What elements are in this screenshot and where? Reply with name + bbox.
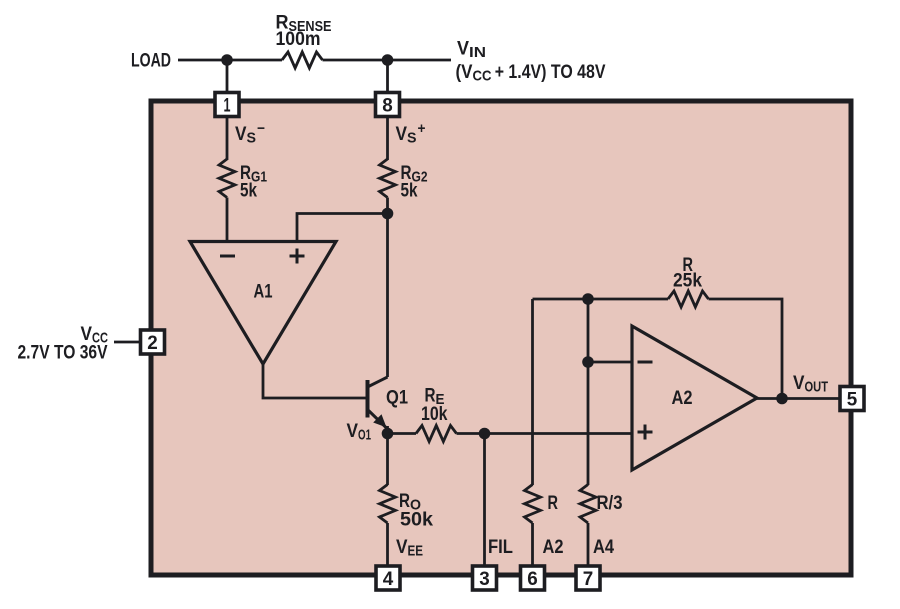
resistor R/3 xyxy=(580,485,596,523)
svg-text:R/3: R/3 xyxy=(597,492,623,514)
junction RG2 tap xyxy=(382,208,394,220)
wire rail to pin 1 xyxy=(226,60,229,92)
node VO1 xyxy=(382,428,394,440)
svg-text:A1: A1 xyxy=(254,281,273,303)
svg-text:7: 7 xyxy=(583,568,594,590)
resistor R 25k xyxy=(668,291,708,307)
junction FIL node xyxy=(479,428,491,440)
svg-text:4: 4 xyxy=(383,568,394,590)
wire rail to pin 8 xyxy=(386,60,389,92)
svg-text:S: S xyxy=(247,131,257,147)
wire A1 output to Q1 base xyxy=(263,363,368,398)
wire RO to pin 4 xyxy=(386,523,389,565)
wire pin 1 to RG1 xyxy=(226,117,229,160)
svg-text:Q1: Q1 xyxy=(386,387,408,409)
pin 5 xyxy=(840,387,864,411)
wire feedback line to R xyxy=(531,299,534,485)
pin 8 xyxy=(376,93,400,117)
transistor Q1 xyxy=(366,380,370,418)
wire pin 8 to RG2 xyxy=(386,117,389,160)
svg-text:+ 1.4V) TO 48V: + 1.4V) TO 48V xyxy=(492,61,606,83)
svg-text:S: S xyxy=(407,131,417,147)
wire feedback to output xyxy=(709,299,783,399)
pin 6 xyxy=(521,566,545,590)
junction R/3 top xyxy=(582,293,594,305)
pin 3 xyxy=(473,566,497,590)
resistor RO xyxy=(380,485,396,523)
wire RE to A2 plus input xyxy=(457,432,633,435)
wire FIL node to pin 3 xyxy=(483,434,486,566)
svg-text:R: R xyxy=(548,492,559,514)
resistor R xyxy=(525,485,541,523)
wire Q1 emitter to VO1 node xyxy=(386,426,389,434)
pin 2 xyxy=(141,330,165,354)
op-amp A1 xyxy=(190,242,336,365)
svg-text:FIL: FIL xyxy=(488,536,513,558)
svg-text:1: 1 xyxy=(224,95,231,117)
wire tap to A2 minus input xyxy=(588,361,632,364)
junction output node xyxy=(776,393,788,405)
svg-text:50k: 50k xyxy=(400,509,433,531)
svg-text:LOAD: LOAD xyxy=(131,50,171,72)
svg-text:A2: A2 xyxy=(672,387,693,409)
svg-text:25k: 25k xyxy=(673,270,702,292)
svg-text:V: V xyxy=(396,123,408,145)
svg-text:V: V xyxy=(396,536,408,558)
junction at pin 8 rail xyxy=(382,54,394,66)
svg-text:V: V xyxy=(793,372,805,394)
svg-text:EE: EE xyxy=(408,544,424,560)
svg-text:6: 6 xyxy=(527,568,538,590)
wire tap to A1 plus input xyxy=(297,214,388,242)
wire VO1 to RO xyxy=(386,434,389,486)
junction A2 minus tap xyxy=(582,356,594,368)
svg-text:A4: A4 xyxy=(593,536,614,558)
svg-text:5k: 5k xyxy=(401,180,418,202)
wire R to pin 6 xyxy=(531,523,534,565)
resistor RSENSE xyxy=(282,52,322,68)
svg-text:5: 5 xyxy=(847,389,858,411)
op-amp A2 xyxy=(632,326,757,470)
pin 7 xyxy=(576,566,600,590)
svg-text:O1: O1 xyxy=(358,428,371,444)
svg-text:5k: 5k xyxy=(240,180,257,202)
wire VCC to pin 2 xyxy=(114,341,140,344)
svg-text:100m: 100m xyxy=(276,28,321,50)
svg-text:A2: A2 xyxy=(543,536,564,558)
svg-text:OUT: OUT xyxy=(805,380,829,396)
wire feedback top xyxy=(533,298,669,301)
svg-text:8: 8 xyxy=(382,95,393,117)
svg-text:CC: CC xyxy=(473,69,492,85)
pin 4 xyxy=(376,566,400,590)
svg-text:10k: 10k xyxy=(421,403,448,425)
junction at pin 1 rail xyxy=(221,54,233,66)
pin 1 xyxy=(215,93,239,117)
wire R/3 to pin 7 xyxy=(587,523,590,565)
wire RSENSE to VIN xyxy=(323,59,452,62)
wire RG2 to Q1 collector xyxy=(386,198,389,378)
wire LOAD to RSENSE xyxy=(178,59,282,62)
wire RG1 to A1 minus input xyxy=(226,198,229,242)
wire feedback line to R/3 xyxy=(587,299,590,485)
resistor RG1 xyxy=(219,159,235,197)
svg-text:(V: (V xyxy=(456,61,473,83)
svg-text:+: + xyxy=(418,121,426,137)
svg-text:V: V xyxy=(347,420,359,442)
svg-text:3: 3 xyxy=(479,568,490,590)
wire VO1 to RE xyxy=(388,432,417,435)
svg-text:IN: IN xyxy=(469,45,486,61)
svg-text:V: V xyxy=(235,123,247,145)
svg-text:2.7V TO 36V: 2.7V TO 36V xyxy=(18,342,108,364)
resistor RG2 xyxy=(380,159,396,197)
resistor RE xyxy=(416,426,456,442)
svg-text:−: − xyxy=(257,121,265,137)
wire A2 output to pin 5 xyxy=(756,397,839,400)
svg-text:2: 2 xyxy=(147,332,158,354)
svg-text:V: V xyxy=(457,38,469,60)
IC body xyxy=(151,101,851,575)
